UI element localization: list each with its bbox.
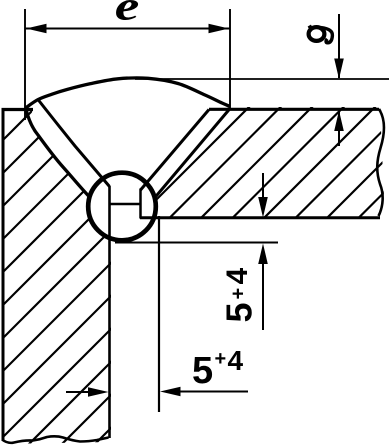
weld fusion line, right outer	[152, 109, 230, 202]
root bead bottom extension line	[115, 242, 278, 244]
svg-text:+: +	[228, 288, 250, 300]
right plate outline: top edge	[209, 108, 379, 111]
right plate end face	[139, 189, 142, 219]
dimension e: right extension line	[229, 9, 231, 108]
dimension 5+4 bottom: left arrow (tip at plate face)	[66, 391, 95, 393]
dimension 5+4 bottom: right arrow (tip at extension line)	[176, 391, 248, 393]
weld fusion line, left inner (to root)	[38, 100, 110, 187]
right plate wavy right break line	[377, 109, 384, 216]
label g: top tail	[308, 26, 311, 28]
dimension 5+4 vertical: lower arrow	[262, 262, 264, 330]
left plate wavy bottom break line	[2, 436, 109, 443]
left plate bevel edge (curved)	[26, 110, 90, 198]
root bead circle	[88, 173, 156, 241]
hatching: left vertical plate	[0, 100, 389, 446]
dimension g: lower arrow line	[338, 111, 340, 146]
svg-text:4: 4	[221, 268, 254, 285]
root bead circle white fill	[86, 171, 158, 243]
hatching: right horizontal plate	[34, 100, 389, 228]
weld cap bead arc	[26, 78, 231, 108]
dimension e: dimension line with arrows	[25, 28, 230, 30]
svg-text:5: 5	[192, 350, 213, 392]
svg-text:4: 4	[228, 345, 244, 376]
dimension 5+4 vertical: upper arrow	[262, 173, 264, 200]
svg-text:+: +	[215, 348, 227, 370]
left plate outline: left edge	[2, 110, 5, 440]
label e	[115, 0, 140, 29]
left plate outline: top edge	[2, 108, 34, 111]
label g: hook	[321, 28, 332, 43]
dimension e: left extension line	[24, 9, 26, 120]
label 5+4 (rotated)	[218, 268, 259, 323]
weld fusion line, right inner (to root)	[141, 110, 210, 191]
left plate right edge (through root circle)	[108, 186, 111, 438]
svg-text:5: 5	[218, 302, 259, 322]
root gap horizontal line	[110, 203, 142, 206]
dimension 5+4 bottom: extension line	[158, 216, 160, 412]
dimension g: upper arrow line	[338, 14, 340, 78]
weld cap tangent thin line (for g)	[135, 78, 389, 80]
right plate bottom edge	[140, 216, 380, 219]
svg-text:e: e	[115, 0, 140, 29]
label g: bowl	[309, 27, 325, 41]
